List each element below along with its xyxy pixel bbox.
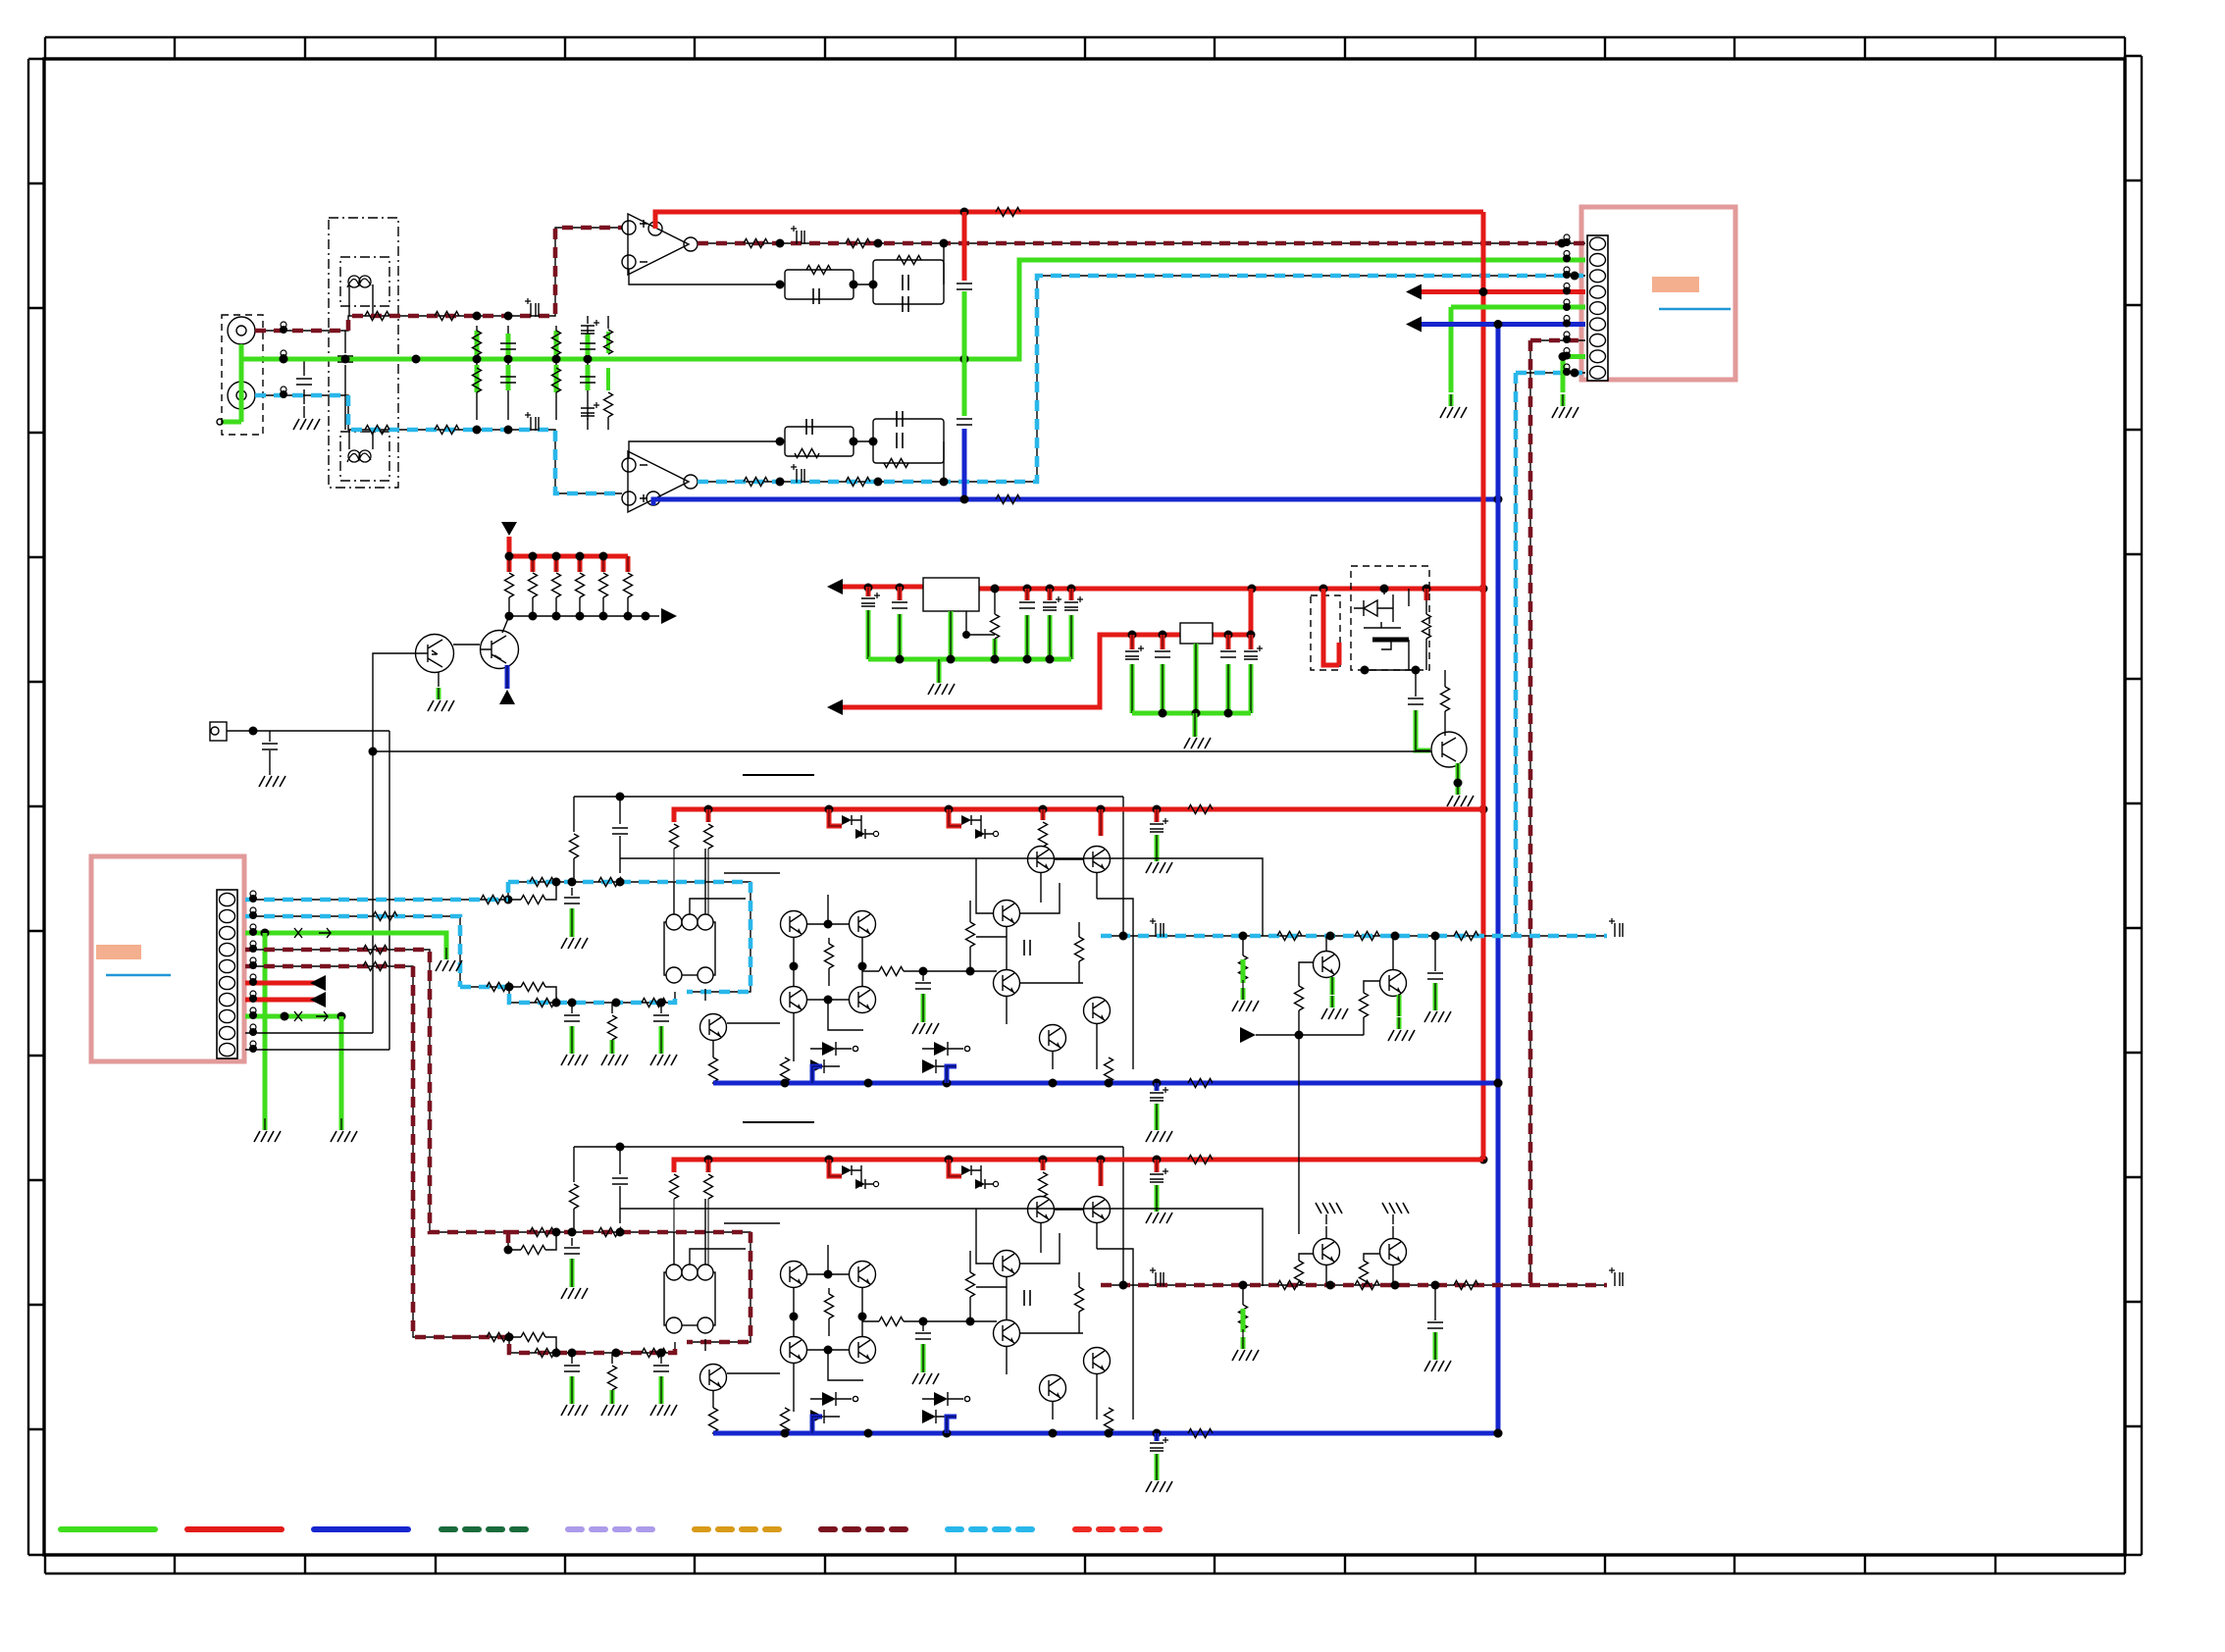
resistor RB7 (loop bottom)	[487, 1333, 511, 1342]
capacitor C2 (jack filter)	[337, 331, 353, 430]
resistor ladder top at x=567	[552, 326, 561, 355]
RCA jack CN1 (top)	[228, 317, 255, 344]
wire: blue arrow line to J2 pin6	[1422, 324, 1585, 326]
ground: chA C9 ground	[1146, 1118, 1172, 1142]
wire: chB input loop top	[508, 1232, 750, 1342]
red stub RA2	[706, 809, 711, 822]
resistor R44 (Q33 base)	[1360, 1261, 1369, 1285]
ground: CB6 ground	[561, 1275, 588, 1299]
capacitor CA10 (series out)	[1150, 918, 1164, 937]
resistor R12 (on -B)	[996, 495, 1020, 504]
wire: maroon J1-4 to channel B	[245, 950, 508, 1232]
junction dots: chB quad	[790, 1270, 867, 1355]
green drop CB12	[1433, 1332, 1438, 1348]
junction dots: chA top rail	[616, 793, 625, 801]
resistor R2 (on L+ line)	[435, 312, 459, 321]
junction dots: J1-8	[281, 1012, 346, 1021]
resistor ladder bottom at x=567	[552, 363, 561, 420]
resistor R30 (J1-1)	[481, 896, 505, 904]
wire: cyan J1-2 to channel A	[245, 916, 460, 987]
resistor RB20 (blue rail series)	[1188, 1429, 1213, 1438]
resistor RB3	[704, 1174, 713, 1199]
transistor QA7	[781, 911, 807, 938]
red elbow to QB5	[829, 1160, 842, 1176]
RC feedback pair RC2 (U1)	[873, 256, 944, 313]
resistor R13 (reg)	[991, 589, 1000, 639]
junction dots: bias bus	[505, 612, 650, 621]
green core RB21	[1241, 1309, 1246, 1337]
wire: chB input loop left edge	[507, 1232, 509, 1250]
green return C15	[1069, 615, 1074, 659]
capacitor C4 (electrolytic on R+)	[525, 412, 539, 431]
dashed box around Q-switch left	[1311, 595, 1340, 670]
ground: input filter ground	[293, 406, 320, 430]
resistor RA19 (rail series)	[1188, 805, 1213, 814]
signal arrow (left) blue arrow J2-6	[1406, 317, 1422, 333]
junction dots: L+ line	[473, 312, 513, 321]
resistor RB4	[1039, 1172, 1048, 1197]
RC feedback pair RC4 (U2)	[873, 411, 944, 468]
green drop RB11	[610, 1390, 615, 1392]
resistor R24 (bias ladder)	[599, 573, 608, 616]
long sense line to protection	[620, 858, 1263, 936]
junction dots: U1 fb	[776, 281, 878, 289]
electrolytic cap C6 at U2 input	[581, 402, 599, 430]
junction dots: chB blue rail	[781, 1429, 1503, 1438]
mid node wiring	[862, 1297, 997, 1321]
CA4 below loop	[564, 1003, 580, 1021]
relay feeds	[674, 1199, 746, 1351]
transistor QA9	[781, 987, 807, 1013]
wire: red J1-6 arrow	[245, 982, 324, 984]
junction dots: cluster A	[1295, 1031, 1304, 1040]
ground: CA5 ground	[650, 1042, 677, 1065]
resistor R4 (on R+ line)	[435, 426, 459, 435]
resistor RB13	[966, 1251, 975, 1297]
ground stem row1	[937, 659, 942, 671]
ground: J1-3 ground drop	[254, 1118, 281, 1142]
ground: regulator row1 ground	[928, 671, 955, 695]
resistor R43 (Q32 base)	[1295, 1261, 1304, 1285]
wire: red regulator row 2	[843, 589, 1251, 707]
transistor QB13	[1084, 1197, 1111, 1223]
wire: green jack ground link	[223, 344, 241, 422]
capacitor CA1	[612, 828, 628, 873]
resistor RB18b (series out)	[1355, 1281, 1379, 1290]
green return C13	[1025, 615, 1030, 659]
ground: CB7 ground	[912, 1361, 939, 1384]
IC2 ground stem	[1194, 644, 1199, 713]
transistor Q33	[1380, 1239, 1407, 1265]
ground (inverted): Q33 collector ground	[1382, 1203, 1409, 1224]
junction dots: U2 out	[776, 272, 1579, 487]
resistor RA8 (loop bottom)	[535, 999, 559, 1007]
capacitor C16 (reg2 in)	[1125, 635, 1144, 659]
ground: CA7 ground	[912, 1010, 939, 1034]
capacitor C14 (reg output)	[1043, 589, 1061, 610]
green return C18	[1226, 664, 1231, 713]
CB4 below loop	[564, 1353, 580, 1371]
green return C14	[1048, 615, 1053, 659]
continuation tick above channel A	[743, 774, 814, 776]
transistor QA12	[1028, 847, 1055, 873]
resistor RA16	[781, 1058, 790, 1084]
grey drops to driver	[674, 1199, 708, 1274]
underline (blue) in left block	[106, 974, 171, 976]
ferrite beads on J1-8	[294, 1011, 328, 1021]
ground: J1-8 ground drop	[331, 1118, 357, 1142]
wire: red jog through switch	[1323, 589, 1339, 665]
transistor QA13	[1084, 847, 1111, 873]
transformer T1 secondary dash-dot box	[340, 432, 389, 481]
resistor RB17	[1105, 1408, 1113, 1434]
capacitor C11 (reg input)	[861, 587, 880, 606]
black J1-10 mute line	[245, 1049, 389, 1051]
capacitor CB11 (end)	[1609, 1267, 1623, 1286]
right bank wiring	[976, 1210, 1133, 1420]
green emitter Q30	[1330, 977, 1335, 995]
ground: RA11 ground	[601, 1042, 628, 1065]
junction dots: chB red rail	[704, 1156, 1162, 1164]
junction dots: U1 out	[776, 239, 1567, 248]
signal arrow (left) reg row2 arrow	[827, 699, 843, 715]
junction dots: chA out	[1119, 932, 1440, 941]
capacitor ladder top at x=599	[580, 326, 595, 359]
U2 feedback tap line	[629, 441, 780, 458]
resistor RA18a (series out)	[1277, 932, 1302, 941]
transistor QA15	[994, 970, 1020, 997]
resistor R31 (J1-2)	[373, 912, 397, 921]
red stub to R14	[1424, 589, 1429, 600]
blue stub below Q4	[505, 665, 510, 689]
op-amp U1 (left channel)	[622, 214, 698, 275]
resistor R25 (bias ladder)	[624, 573, 633, 616]
red stub ladder 3	[554, 556, 559, 572]
green return C12	[898, 614, 903, 659]
CA5 below loop	[653, 1003, 669, 1021]
wire: green J1-8 drop	[340, 1016, 342, 1118]
link to input loop	[573, 1209, 575, 1232]
resistor RB22 (between quad)	[825, 1288, 834, 1336]
resistor R23 (bias ladder)	[576, 573, 585, 616]
splice symbols at J1	[249, 891, 257, 1053]
relay feeds	[674, 849, 746, 1001]
red elbow drop right	[1099, 809, 1104, 836]
transistor Q4 (mute)	[480, 631, 519, 669]
green drop CA9	[1155, 1104, 1160, 1118]
wire: cyan U2 output to J2 pin3	[698, 276, 1585, 482]
capacitor C18 (reg2 out)	[1220, 635, 1236, 657]
wire: green ground bus row2	[1132, 712, 1251, 714]
headphone detect jack J3	[210, 722, 389, 741]
ground: Q3 emitter ground	[428, 688, 454, 711]
ground: RB21 ground	[1232, 1337, 1259, 1361]
wire: chB red +rail	[674, 1160, 1483, 1172]
legend wire sample: dashed gold	[695, 1526, 789, 1532]
blue elbow DA1	[812, 1066, 822, 1083]
resistor RB6 (loop top)	[598, 1228, 623, 1237]
junction dots: chB out	[1119, 1281, 1440, 1290]
junction dots: chB top rail	[616, 1143, 625, 1152]
green drop CA5	[659, 1026, 664, 1042]
power MOSFET QB5	[842, 1165, 879, 1189]
capacitor C21 (jack)	[262, 731, 278, 763]
junction dots: R+ line	[473, 426, 513, 435]
electrolytic cap C5 at U1 input	[581, 316, 599, 334]
junction dots: bias top bus	[505, 552, 608, 561]
transistor QB14	[994, 1251, 1020, 1277]
ground: CB5 ground	[650, 1392, 677, 1416]
ground: RA21 ground	[1232, 988, 1259, 1011]
mute sense lines to J1	[373, 653, 416, 1050]
resistor RA21 (out shunt)	[1239, 936, 1248, 980]
resistor RA18c (series out)	[1454, 932, 1478, 941]
wire: cyd channel A output line	[1101, 935, 1607, 937]
black J1-9 mute line	[245, 1032, 373, 1034]
legend wire sample: dashed cyan	[948, 1526, 1042, 1532]
red stub RB2	[706, 1160, 711, 1172]
resistor RA4	[1039, 822, 1048, 847]
capacitor CB7	[915, 1321, 931, 1339]
ground: J2 pin8 ground	[1552, 394, 1578, 418]
wire: green signal ground bus	[241, 260, 1585, 359]
wire: chA input loop left edge	[507, 882, 509, 900]
IC1 ground stem	[949, 611, 954, 659]
resistor RB8 (loop bottom)	[535, 1349, 559, 1358]
resistor RA2	[670, 824, 679, 849]
green return C16	[1130, 664, 1135, 713]
capacitor ladder top at x=518	[500, 326, 516, 359]
wire: bias ladder output bus (black)	[509, 615, 659, 617]
junction dots: green bus	[280, 355, 969, 364]
op-amp U2 (right channel)	[622, 451, 698, 512]
green emitter Q31	[1397, 995, 1402, 1016]
splice symbols on input lines	[280, 322, 287, 398]
resistor RA20 (blue rail series)	[1188, 1079, 1213, 1088]
MOSFET Q1 (power switch)	[1354, 594, 1409, 649]
wire: green line to J2 pin5	[1451, 307, 1585, 392]
transistor QA8	[850, 911, 876, 938]
resistor RA9 (tap upper)	[508, 882, 556, 904]
transistor QA14	[994, 901, 1020, 927]
red stub ladder 4	[578, 556, 583, 572]
junction dots: J2 pin9 junction	[1571, 369, 1579, 378]
capacitor C8 electrolytic (U2 out)	[791, 464, 804, 483]
blue stub cap col	[1155, 1083, 1160, 1091]
capacitor C20	[1408, 670, 1423, 704]
junction dots: J2 pin8	[1559, 352, 1568, 361]
label highlight (orange) in top-right block	[1652, 277, 1699, 292]
capacitor C12 (reg input)	[892, 587, 907, 608]
red stub ladder 5	[601, 556, 606, 572]
wire: red bias ladder bus	[509, 537, 628, 556]
resistor RA12	[879, 967, 904, 976]
ground stem row2	[1193, 713, 1198, 725]
resistor R11 (on +B)	[996, 208, 1020, 217]
transistor Q3 (mute)	[416, 635, 454, 673]
ground: chA C2 ground	[1146, 850, 1172, 873]
wire: chA black top rail	[574, 797, 1123, 936]
capacitor C9 electrolytic (V+ col)	[957, 284, 972, 289]
blue elbow DB1	[812, 1417, 822, 1433]
capacitor CB6	[564, 1238, 580, 1254]
capacitor CB2	[1150, 1168, 1168, 1182]
transformer T1 secondary coil	[347, 450, 371, 462]
quad wiring	[713, 1245, 863, 1412]
legend wire sample: dashed dark green	[441, 1526, 536, 1532]
sheet frame: right ruler band	[2125, 56, 2142, 1555]
resistor R6 vertical at U2	[604, 368, 613, 430]
capacitor ladder bottom at x=599	[580, 359, 595, 420]
resistor R14	[1423, 598, 1431, 670]
wire: blue -B line from U2	[653, 499, 1498, 505]
signal arrow (left) red arrow J2-4	[1406, 284, 1422, 300]
ground: J2 pin5 ground	[1440, 394, 1467, 418]
transistor Q32	[1314, 1239, 1340, 1265]
cap CA8	[1024, 940, 1030, 955]
supply arrow (up, negative rail)	[499, 690, 515, 704]
transformer T1 primary dash-dot box	[340, 257, 389, 306]
wire: maroon U1 output to J2 pin1	[698, 242, 1585, 244]
green return R13	[993, 639, 998, 659]
capacitor C15 (reg output)	[1064, 589, 1083, 610]
diode pair DB2	[922, 1392, 970, 1423]
sheet frame: top ruler band	[45, 37, 2125, 59]
transistor QB8	[850, 1262, 876, 1288]
capacitor CA9	[1150, 1087, 1168, 1101]
resistor RA18b (series out)	[1355, 932, 1379, 941]
junction dots: reg row2	[1128, 631, 1256, 640]
wire: red +B right bus vertical	[1482, 212, 1484, 1160]
resistor RB19 (rail series)	[1188, 1156, 1213, 1164]
wire: green J1-3 drop	[264, 933, 266, 1118]
transistor Q31	[1380, 970, 1407, 997]
capacitor CB1	[612, 1178, 628, 1223]
cluster A wiring	[1256, 936, 1393, 1035]
resistor R9 (U2 out)	[744, 478, 768, 487]
IC1 adj network	[966, 611, 995, 635]
wire: green mid of V+ column	[963, 291, 965, 416]
line transformer T1 outer dash-dot box	[329, 218, 398, 488]
wire: cyan feed vertical (J2 pin9)	[1516, 373, 1585, 936]
green return C19	[1249, 664, 1254, 713]
sheet frame: bottom ruler band	[45, 1555, 2125, 1574]
resistor RB18c (series out)	[1454, 1281, 1478, 1290]
sheet frame: left ruler band	[28, 59, 44, 1555]
ferrite beads on J1-3	[294, 928, 331, 938]
resistor R21 (bias ladder)	[529, 573, 538, 616]
resistor RA7 (loop bottom)	[487, 983, 511, 992]
wire: cyan input net (R+) from RCA to U2+	[255, 395, 622, 493]
ground: Q31 emitter ground	[1388, 1017, 1415, 1041]
wire: chA input loop bottom	[460, 987, 675, 1003]
resistor RA8b (loop bottom2)	[642, 999, 666, 1007]
wire: maroon J1-5 to channel B	[245, 966, 460, 1337]
green drop CA4	[570, 1026, 575, 1042]
legend wire sample: solid red	[187, 1526, 282, 1532]
resistor RA14	[1075, 922, 1084, 983]
ground: CB4 ground	[561, 1392, 588, 1416]
capacitor C19 (reg2 out)	[1244, 635, 1263, 659]
ground: regulator row2 ground	[1184, 725, 1211, 749]
junction dots: J1-3	[261, 929, 270, 938]
wire: chA red +rail	[674, 809, 1483, 822]
resistor RA13	[966, 901, 975, 947]
red stub RB4	[1041, 1160, 1046, 1170]
wire: red stub of V+ column	[963, 212, 965, 281]
capacitor C3 (electrolytic on L+)	[525, 298, 539, 317]
transistor QA10	[850, 987, 876, 1013]
connector J2 (9-pin, top right)	[1587, 235, 1608, 381]
transistor QB9	[781, 1337, 807, 1364]
signal arrow (right) bias output arrow	[661, 608, 677, 624]
wire: red J1-7 arrow	[245, 999, 324, 1001]
splice symbols at J2	[1563, 234, 1571, 376]
transistor QA11	[700, 1014, 727, 1041]
resistor RB5 (loop top)	[530, 1228, 554, 1237]
resistor RA1 (rail drop)	[570, 834, 579, 858]
ground: CA4 ground	[561, 1042, 588, 1065]
blue elbow DB2	[947, 1417, 957, 1433]
junction dots: chA blue rail	[781, 1079, 1503, 1088]
junction dots: chB mid	[919, 1317, 975, 1326]
resistor R15	[1441, 670, 1450, 736]
signal arrow (left) J1-6 arrow	[310, 975, 326, 991]
transistor QB10	[850, 1337, 876, 1364]
resistor R32 (J1-4)	[363, 946, 388, 955]
red stub cap col	[1155, 1160, 1160, 1172]
resistor RA22 (between quad)	[825, 938, 834, 986]
signal arrow (right) mute feed arrow	[1240, 1027, 1256, 1043]
wire: blue -B right bus vertical	[1497, 325, 1499, 1434]
junction dots: reg row1	[864, 584, 1431, 594]
diode pair DB1	[810, 1392, 858, 1423]
green drop CB7	[921, 1344, 926, 1361]
signal arrow (left) J1-7 arrow	[310, 992, 326, 1007]
legend wire sample: dashed maroon	[821, 1526, 915, 1532]
connector block frame (left PCB)	[91, 856, 244, 1061]
junction dots: q2 dot	[1454, 779, 1463, 788]
RC feedback pair RC1 (U1)	[785, 266, 854, 305]
ground: Q2 emitter ground	[1447, 783, 1474, 806]
CB5 below loop	[653, 1353, 669, 1371]
legend wire sample: solid green	[61, 1526, 155, 1532]
capacitor CB9	[1150, 1437, 1168, 1451]
legend wire sample: solid blue	[314, 1526, 408, 1532]
transistor QA17	[1084, 998, 1111, 1024]
capacitor C13 (reg output)	[1019, 589, 1035, 608]
power MOSFET QB6	[961, 1165, 999, 1189]
resistor R3 (on R+ line)	[365, 426, 389, 435]
wire: green ground bus row1	[868, 658, 1071, 660]
ground: jack cap ground	[259, 763, 285, 787]
red elbow to QA5	[829, 809, 842, 826]
wire: blue bottom of V+ column	[963, 429, 965, 499]
transistor QA16	[1040, 1025, 1066, 1052]
resistor R33 (J1-5)	[363, 962, 388, 971]
resistor RB9 (tap upper)	[508, 1232, 556, 1255]
red elbow to QB6	[949, 1160, 961, 1176]
RA11 below loop	[608, 1003, 617, 1040]
ground: J1-3 ground right	[436, 948, 462, 971]
green drop CB6	[570, 1259, 575, 1275]
green return C17	[1161, 664, 1165, 713]
resistor R22 (bias ladder)	[552, 573, 561, 616]
blue stub cap col	[1155, 1433, 1160, 1441]
wire: red arrow line to J2 pin4	[1422, 291, 1585, 293]
junction dots: chA red rail	[704, 805, 1162, 814]
ground: chB C2 ground	[1146, 1200, 1172, 1223]
